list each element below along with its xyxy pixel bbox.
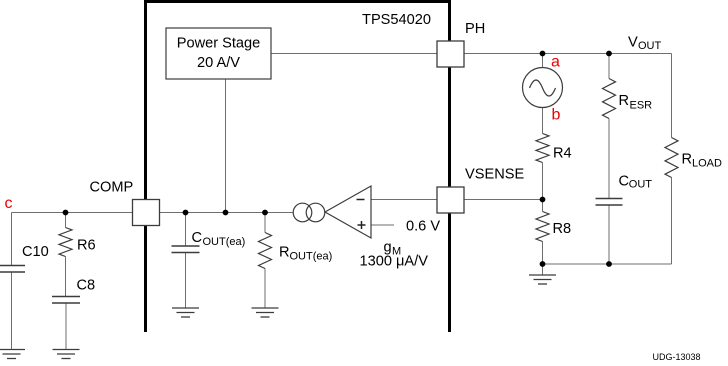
svg-text:OUT: OUT (629, 179, 653, 191)
svg-text:V: V (628, 35, 638, 51)
svg-text:R6: R6 (77, 238, 96, 254)
svg-text:C8: C8 (77, 278, 96, 294)
svg-text:C10: C10 (22, 244, 49, 260)
svg-text:ESR: ESR (630, 100, 653, 112)
svg-text:R8: R8 (553, 221, 572, 237)
svg-text:a: a (551, 54, 560, 71)
svg-text:R: R (682, 152, 693, 168)
svg-text:R: R (279, 245, 290, 261)
svg-text:20 A/V: 20 A/V (197, 55, 240, 71)
svg-text:R4: R4 (553, 145, 572, 161)
svg-text:VSENSE: VSENSE (465, 167, 524, 183)
svg-text:UDG-13038: UDG-13038 (653, 352, 701, 361)
svg-text:LOAD: LOAD (692, 158, 722, 170)
svg-text:TPS54020: TPS54020 (362, 12, 431, 28)
svg-text:OUT(ea): OUT(ea) (203, 236, 246, 248)
svg-text:C: C (192, 230, 203, 246)
svg-text:PH: PH (465, 21, 485, 37)
svg-text:0.6 V: 0.6 V (406, 219, 440, 235)
svg-text:COMP: COMP (90, 180, 134, 196)
svg-text:OUT: OUT (638, 40, 662, 52)
svg-text:b: b (552, 107, 561, 124)
svg-text:1300 μA/V: 1300 μA/V (360, 254, 429, 270)
svg-text:R: R (619, 93, 630, 109)
svg-text:c: c (5, 195, 13, 212)
svg-text:Power Stage: Power Stage (177, 36, 261, 52)
svg-text:OUT(ea): OUT(ea) (290, 251, 333, 263)
svg-text:C: C (619, 174, 630, 190)
